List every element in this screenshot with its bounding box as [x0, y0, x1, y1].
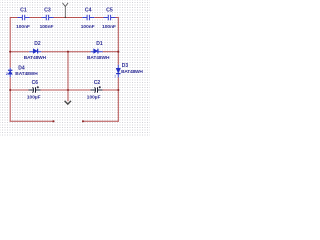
- wire cap row C2 right: [103, 89, 119, 91]
- wire top rail C4-C5: [94, 17, 103, 19]
- diode D4: [8, 68, 12, 78]
- wire middle row D1 right: [103, 51, 119, 53]
- capacitor C6 (polarized): [29, 86, 41, 93]
- svg-text:2: 2: [6, 72, 8, 76]
- capacitor C5: [104, 15, 116, 20]
- svg-text:100µF: 100µF: [27, 95, 41, 101]
- wire top rail left segment: [10, 17, 17, 19]
- wire left vertical lower: [9, 77, 11, 121]
- node junction right-middle: [117, 51, 119, 53]
- svg-text:100nF: 100nF: [102, 24, 116, 30]
- svg-text:BAT48WH: BAT48WH: [121, 69, 143, 75]
- svg-text:C1: C1: [20, 8, 27, 14]
- svg-text:C2: C2: [94, 80, 101, 86]
- wire cap row C6-junction: [41, 89, 69, 91]
- wire top rail C1-C3: [30, 17, 42, 19]
- capacitor C3: [42, 15, 54, 20]
- diode D2: [29, 49, 41, 54]
- svg-text:C4: C4: [85, 8, 92, 14]
- wire left vertical upper: [9, 17, 11, 68]
- svg-text:D1: D1: [96, 41, 103, 47]
- wire middle row D2 left: [10, 51, 29, 53]
- ground arrow (down): [65, 101, 71, 104]
- diode D3: [116, 65, 120, 78]
- svg-text:100nF: 100nF: [40, 24, 54, 30]
- diode D1: [91, 49, 103, 54]
- capacitor C4: [82, 15, 94, 20]
- node junction left-cap row: [9, 89, 11, 91]
- wire top rail right segment: [116, 17, 119, 19]
- wire middle row D2-D1: [41, 51, 90, 53]
- wire bottom left: [10, 120, 54, 122]
- svg-text:D2: D2: [34, 41, 41, 47]
- svg-text:100µF: 100µF: [87, 95, 101, 101]
- svg-text:100nF: 100nF: [81, 24, 95, 30]
- node endpoint bottom right wire: [82, 120, 84, 122]
- capacitor C2 (polarized): [91, 86, 103, 93]
- wire cap row left: [10, 89, 28, 91]
- svg-text:C6: C6: [32, 80, 39, 86]
- svg-text:BAT48WH: BAT48WH: [24, 55, 47, 61]
- node endpoint bottom left wire: [52, 120, 54, 122]
- svg-text:BAT48WH: BAT48WH: [15, 71, 38, 77]
- svg-text:C5: C5: [106, 8, 113, 14]
- wire cap row junction-C2: [68, 89, 91, 91]
- wire bottom right: [83, 120, 118, 122]
- svg-text:2: 2: [114, 75, 116, 79]
- node antenna junction: [65, 17, 67, 19]
- node junction middle-cap row: [67, 89, 69, 91]
- node junction left-middle: [9, 51, 11, 53]
- node junction middle-top: [67, 51, 69, 53]
- svg-text:100nF: 100nF: [16, 24, 30, 30]
- wire middle vertical: [67, 52, 69, 102]
- wire right vertical lower: [117, 77, 119, 122]
- wire top rail C3-C4: [54, 17, 83, 19]
- svg-text:C3: C3: [44, 8, 51, 14]
- svg-text:BAT48WH: BAT48WH: [87, 55, 110, 61]
- node junction right-cap row: [117, 89, 119, 91]
- capacitor C1: [18, 15, 30, 20]
- antenna: [63, 3, 69, 18]
- svg-text:D3: D3: [122, 63, 129, 69]
- svg-text:D4: D4: [18, 66, 25, 72]
- wire right vertical upper: [117, 17, 119, 65]
